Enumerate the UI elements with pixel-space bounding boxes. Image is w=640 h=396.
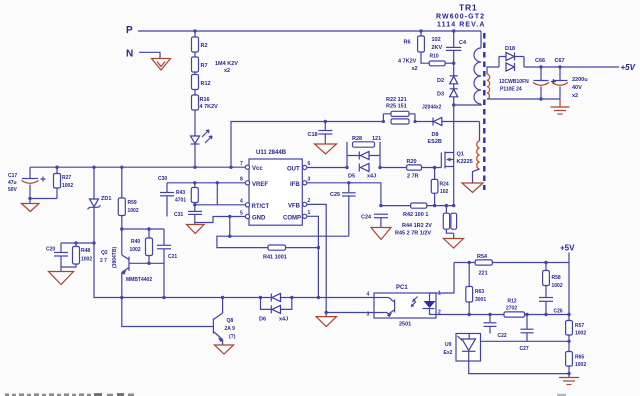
svg-text:4 7K2V: 4 7K2V <box>200 104 219 110</box>
wire R12-R16 <box>194 90 196 96</box>
resistor R12 <box>504 299 569 318</box>
svg-text:R45 2 7R 1/2V: R45 2 7R 1/2V <box>395 231 431 237</box>
junction D6 nodes <box>259 296 294 299</box>
wire Q2 base <box>129 262 164 264</box>
svg-text:R10: R10 <box>430 54 439 60</box>
svg-text:R7: R7 <box>201 63 208 69</box>
ground at N <box>152 59 171 71</box>
svg-text:1002: 1002 <box>552 283 563 289</box>
svg-text:ES2B: ES2B <box>428 139 442 145</box>
junction pin2 bus dots <box>468 313 492 316</box>
resistor R59 <box>118 167 139 229</box>
ground under C17 <box>22 199 40 212</box>
pin 4 RT/CT <box>240 199 250 207</box>
wire IFB <box>307 183 381 206</box>
wire Q2 cluster top <box>122 228 164 230</box>
diode D3 <box>437 89 458 105</box>
junction drain node <box>452 103 455 106</box>
resistor R12 <box>192 75 211 90</box>
junction C18 <box>324 120 327 123</box>
node N <box>126 49 133 60</box>
svg-text:J2044x2: J2044x2 <box>422 105 442 111</box>
svg-text:K2225: K2225 <box>457 159 473 165</box>
resistor R63 <box>466 263 487 315</box>
wire Vcc aux feed <box>231 122 383 168</box>
capacitor C25 <box>330 183 356 236</box>
wire P rail <box>138 30 481 32</box>
junction R43-C31 RT/CT node <box>193 203 196 206</box>
wire tap to C20/R48 <box>61 242 94 244</box>
svg-text:1002: 1002 <box>128 208 139 214</box>
transistor Q1 MOSFET <box>441 152 472 169</box>
svg-text:MMBT4402: MMBT4402 <box>126 277 152 283</box>
junction ZD1 tap <box>92 241 95 244</box>
svg-text:1002: 1002 <box>130 247 141 253</box>
junction sense dots <box>379 204 455 207</box>
junction C27 top <box>525 313 528 316</box>
svg-text:R54: R54 <box>477 254 488 260</box>
resistor R58 <box>543 263 563 298</box>
svg-text:2 7: 2 7 <box>100 258 107 264</box>
value label J2044x2 <box>422 105 442 111</box>
svg-text:C20: C20 <box>46 247 55 253</box>
svg-text:7: 7 <box>240 161 243 167</box>
capacitor C17 <box>8 167 46 198</box>
capacitor C27 <box>520 315 534 353</box>
svg-text:3: 3 <box>308 177 311 183</box>
svg-text:P: P <box>126 25 133 36</box>
wire VREF to RT/CT tie <box>216 183 218 205</box>
resistor R7 <box>192 57 208 72</box>
LED D1 <box>191 130 213 144</box>
wire R7-R12 <box>194 72 196 75</box>
resistor R54 <box>475 254 569 277</box>
wire +5V column <box>568 253 570 321</box>
capacitor C21 <box>157 229 177 298</box>
value label rectifier <box>499 79 529 93</box>
wire +5V feed <box>454 262 475 264</box>
svg-text:R58: R58 <box>552 275 561 281</box>
pin 1 COMP <box>303 210 311 218</box>
svg-text:8: 8 <box>240 177 243 183</box>
resistor R65 <box>566 352 587 378</box>
svg-text:D8: D8 <box>432 132 439 138</box>
svg-text:D6: D6 <box>259 317 266 323</box>
capacitor C30 <box>158 176 174 217</box>
svg-text:OUT: OUT <box>287 167 300 173</box>
svg-text:2702: 2702 <box>506 306 517 312</box>
ground under C31 <box>187 225 205 234</box>
svg-text:P110E 24: P110E 24 <box>500 87 522 93</box>
junction pin3 tap <box>325 311 328 314</box>
ground under Q8 <box>215 345 234 354</box>
junction R24 top <box>433 166 436 169</box>
junction R41-COMP <box>317 246 320 249</box>
junction output caps <box>539 65 561 68</box>
transformer TR1 aux winding <box>473 122 480 184</box>
svg-text:R57: R57 <box>575 323 584 329</box>
capacitor C24 <box>361 214 388 227</box>
junction dots on Vcc rail <box>55 166 232 169</box>
svg-text:(3904TB): (3904TB) <box>112 247 118 268</box>
svg-text:+5V: +5V <box>560 244 575 253</box>
capacitor C18 <box>308 122 333 145</box>
svg-text:Q2: Q2 <box>101 250 108 256</box>
resistor R24 <box>431 168 449 206</box>
wire Vcc rail <box>30 166 246 168</box>
junction VREF tie <box>216 181 219 184</box>
svg-text:102: 102 <box>440 189 449 195</box>
svg-text:D3: D3 <box>437 92 444 98</box>
svg-text:4: 4 <box>367 292 370 298</box>
wire GND pin <box>195 217 246 223</box>
svg-text:R44 1R2 2V: R44 1R2 2V <box>402 223 432 229</box>
transistor Q2 <box>100 229 152 298</box>
junction R22 nodes <box>382 120 417 123</box>
svg-text:R24: R24 <box>440 182 449 188</box>
svg-text:RW600-GT2: RW600-GT2 <box>436 14 485 21</box>
junction R40 bottom on base wire <box>147 262 150 265</box>
svg-text:2KV: 2KV <box>432 45 443 51</box>
svg-text:2A 9: 2A 9 <box>225 326 236 332</box>
resistor R48 <box>61 243 92 267</box>
junction R59 bottom <box>120 227 123 230</box>
svg-text:1002: 1002 <box>62 183 73 189</box>
wire +5V output <box>524 66 619 68</box>
svg-text:1M4 K2V: 1M4 K2V <box>215 61 238 67</box>
junction R63 top <box>468 261 471 264</box>
wire drain column <box>453 105 455 153</box>
resistor R16 <box>192 95 219 110</box>
junction C25 <box>347 181 350 184</box>
svg-text:Q8: Q8 <box>227 318 234 324</box>
capacitor C66 <box>533 58 549 99</box>
junction COMP on bus <box>317 296 320 299</box>
svg-text:47u: 47u <box>8 180 17 186</box>
capacitor C4 <box>432 31 467 76</box>
svg-text:1002: 1002 <box>81 257 92 263</box>
wire R16 to LED <box>194 110 196 136</box>
ground under C18 <box>315 144 337 154</box>
svg-text:121: 121 <box>372 136 381 142</box>
pin 5 GND <box>240 211 250 219</box>
wire U9 ref <box>481 340 570 342</box>
svg-text:3: 3 <box>367 312 370 318</box>
junction R40 top <box>147 227 150 230</box>
svg-text:TR1: TR1 <box>459 3 477 13</box>
svg-text:2501: 2501 <box>399 322 411 328</box>
capacitor C31 <box>174 211 202 224</box>
svg-text:D18: D18 <box>505 46 515 52</box>
svg-text:x4J: x4J <box>367 174 376 180</box>
resistor R10 <box>429 54 454 66</box>
junction gnd bus node <box>228 235 231 238</box>
shunt regulator U9 <box>444 334 481 362</box>
pin 7 Vcc <box>240 161 250 169</box>
wire PC1 pin3 <box>326 312 374 314</box>
transformer TR1 primary winding <box>454 31 481 105</box>
resistor R27 <box>54 167 74 198</box>
svg-text:102: 102 <box>432 37 441 43</box>
wire PC1 pin2 bus <box>436 314 504 316</box>
svg-text:C17: C17 <box>8 173 17 179</box>
svg-text:1002: 1002 <box>575 331 586 337</box>
op-amp U11 UC2844B body <box>249 150 302 225</box>
svg-text:R6: R6 <box>404 40 411 46</box>
svg-text:C27: C27 <box>520 346 529 352</box>
svg-text:IFB: IFB <box>290 182 300 188</box>
svg-text:2 7R: 2 7R <box>407 174 419 180</box>
junction R43 top <box>193 181 196 184</box>
svg-text:R42 100 1: R42 100 1 <box>403 212 428 218</box>
svg-text:RT/CT: RT/CT <box>252 204 270 210</box>
diode pair D6 <box>259 294 292 323</box>
svg-text:U9: U9 <box>445 342 452 348</box>
junction R58 top <box>544 261 547 264</box>
svg-text:+5V: +5V <box>621 63 636 72</box>
junction R10-C4 <box>452 62 455 65</box>
resistor R6 <box>398 31 429 72</box>
svg-text:VREF: VREF <box>252 182 268 188</box>
svg-text:x2: x2 <box>572 93 578 99</box>
junction C17 bottom <box>28 197 31 200</box>
svg-text:R63: R63 <box>475 289 484 295</box>
junction R6 top <box>419 29 422 32</box>
svg-text:C31: C31 <box>174 212 183 218</box>
svg-text:50V: 50V <box>8 187 18 193</box>
pin 6 OUT <box>303 161 311 170</box>
wire C25 return <box>230 235 349 237</box>
svg-text:2: 2 <box>308 198 311 204</box>
diode D2 <box>437 76 458 89</box>
svg-text:R40: R40 <box>131 239 140 245</box>
svg-text:R16: R16 <box>200 97 210 103</box>
ground under aux winding <box>462 183 483 193</box>
wire GND branch down <box>229 217 231 237</box>
svg-text:6: 6 <box>308 161 311 167</box>
wire jog to R41 <box>217 236 268 247</box>
svg-text:R12: R12 <box>508 299 517 305</box>
wire LED to Vcc rail <box>194 144 196 167</box>
svg-text:C67: C67 <box>555 58 565 64</box>
junction column dots <box>567 313 570 376</box>
value label 1M4 K2V <box>215 61 238 74</box>
svg-text:5: 5 <box>240 211 243 217</box>
transformer TR1 core <box>483 33 485 190</box>
capacitor C26 <box>539 298 563 315</box>
diode pair D18 <box>499 46 524 71</box>
wire chain top stub <box>194 31 196 37</box>
svg-text:221: 221 <box>479 271 488 277</box>
svg-text:R12: R12 <box>201 81 211 87</box>
resistor R43 <box>175 183 198 211</box>
svg-text:N: N <box>126 49 133 60</box>
svg-text:x2: x2 <box>412 66 418 72</box>
caption fragment bottom <box>5 393 566 396</box>
svg-text:C25: C25 <box>330 192 340 198</box>
wire Q8 base <box>122 298 214 327</box>
pin 8 VREF <box>240 177 250 185</box>
wire R2-R7 <box>194 52 196 57</box>
svg-text:12CWB10FN: 12CWB10FN <box>499 79 529 85</box>
svg-text:R48: R48 <box>81 248 90 254</box>
svg-text:x2: x2 <box>224 68 230 74</box>
svg-text:COMP: COMP <box>283 215 301 221</box>
wire Q1 source <box>453 167 455 206</box>
svg-text:C26: C26 <box>554 309 563 315</box>
junction dots feedback bus <box>120 296 224 299</box>
ground under C20 <box>49 241 78 284</box>
wire N <box>139 52 160 58</box>
capacitor C20 <box>46 243 68 267</box>
svg-text:C4: C4 <box>459 40 467 46</box>
svg-text:3001: 3001 <box>475 297 486 303</box>
value label 2200u 40V x2 <box>572 77 588 99</box>
resistor R20 gate <box>380 159 441 180</box>
svg-text:(?): (?) <box>229 334 236 340</box>
transformer TR1 secondary winding <box>487 67 499 99</box>
resistor R45 <box>395 213 457 236</box>
svg-text:4: 4 <box>240 199 243 205</box>
svg-text:C24: C24 <box>361 215 372 221</box>
resistor R41 <box>263 245 318 261</box>
svg-text:Q1: Q1 <box>457 152 464 158</box>
svg-text:VFB: VFB <box>288 203 301 209</box>
node +5V rail <box>560 244 575 253</box>
svg-text:C30: C30 <box>158 176 167 182</box>
resistor R57 <box>566 321 587 352</box>
node +5V out <box>621 63 636 72</box>
svg-text:C18: C18 <box>308 132 318 138</box>
transformer TR1 labels <box>436 3 486 29</box>
svg-text:GND: GND <box>252 216 266 222</box>
junction C26 bottom <box>544 313 547 316</box>
svg-text:C66: C66 <box>535 58 545 64</box>
optocoupler PC1 <box>367 285 442 328</box>
svg-text:PC1: PC1 <box>396 285 408 291</box>
svg-text:1: 1 <box>308 210 311 216</box>
diode D8 <box>428 118 480 146</box>
svg-text:R2: R2 <box>201 43 208 49</box>
wire VREF <box>167 182 245 184</box>
svg-text:R41 1001: R41 1001 <box>263 255 287 261</box>
svg-text:R43: R43 <box>176 190 185 196</box>
junction chain top <box>193 29 196 32</box>
wire COMP <box>307 216 319 297</box>
capacitor C67 <box>551 58 568 99</box>
transistor Q8 <box>213 298 235 345</box>
wire PC1 pin1 <box>436 263 454 294</box>
resistor R2 <box>192 37 208 52</box>
svg-text:Ex2: Ex2 <box>444 350 453 356</box>
svg-text:R28: R28 <box>352 136 362 142</box>
node P <box>126 25 133 36</box>
resistor pair R22 R25 <box>383 97 433 124</box>
pin 3 IFB <box>303 177 311 185</box>
svg-text:D5: D5 <box>348 174 355 180</box>
svg-text:C22: C22 <box>498 333 507 339</box>
svg-text:4 7K2V: 4 7K2V <box>398 59 417 65</box>
resistor R42 <box>403 203 428 218</box>
junction secondary return <box>539 97 542 100</box>
wire ZD1 down to feedback bus <box>94 207 374 297</box>
junction GND branch <box>228 215 231 218</box>
junction D5 nodes <box>345 166 381 169</box>
ground at PC1 pin3 <box>316 317 337 327</box>
wire secondary return <box>487 98 560 100</box>
pin 2 VFB <box>303 198 311 206</box>
svg-text:1114 REV.A: 1114 REV.A <box>437 22 486 29</box>
wire C17-R27 bottom <box>30 198 57 200</box>
svg-text:Vcc: Vcc <box>252 166 263 172</box>
svg-text:1002: 1002 <box>575 362 586 368</box>
svg-text:R25 151: R25 151 <box>386 104 407 110</box>
svg-text:R20: R20 <box>407 159 417 165</box>
ground secondary <box>551 99 570 114</box>
junction C4 top <box>452 29 455 32</box>
svg-text:40V: 40V <box>572 85 582 91</box>
resistor R40 <box>130 229 153 263</box>
diode pair D5 with R28 <box>347 136 381 180</box>
svg-text:D2: D2 <box>437 78 444 84</box>
wire VFB <box>307 204 326 316</box>
ground under C24 <box>371 228 391 240</box>
wire RT/CT <box>195 204 246 206</box>
svg-text:R27: R27 <box>62 175 71 181</box>
svg-text:C21: C21 <box>168 254 177 260</box>
ground under R44 R45 <box>444 233 464 248</box>
svg-text:2200u: 2200u <box>572 77 588 83</box>
resistor R44 <box>402 206 454 234</box>
svg-text:R59: R59 <box>128 200 137 206</box>
svg-text:U11 2844B: U11 2844B <box>256 150 287 156</box>
zener ZD1 <box>88 167 112 209</box>
wire OUT <box>307 167 347 169</box>
svg-text:x4J: x4J <box>279 317 288 323</box>
svg-text:R22 121: R22 121 <box>386 97 407 103</box>
ground bottom right <box>559 378 579 385</box>
wire sense node <box>381 205 454 207</box>
svg-text:ZD1: ZD1 <box>101 196 111 202</box>
capacitor C22 <box>484 315 507 340</box>
wire U9 anode return <box>469 361 569 374</box>
svg-text:4701: 4701 <box>175 198 186 204</box>
svg-text:R65: R65 <box>575 355 584 361</box>
